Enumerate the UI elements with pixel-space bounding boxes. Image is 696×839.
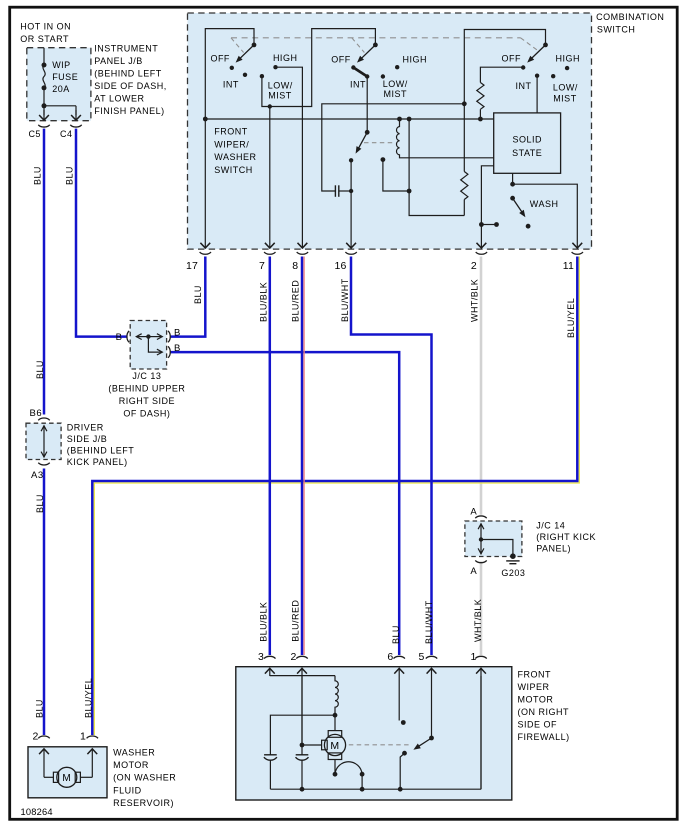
svg-text:SWITCH: SWITCH <box>214 165 253 175</box>
svg-text:AT LOWER: AT LOWER <box>94 93 144 103</box>
svg-text:BLU/YEL: BLU/YEL <box>84 678 94 718</box>
svg-text:SIDE J/B: SIDE J/B <box>67 434 108 444</box>
svg-text:RIGHT SIDE: RIGHT SIDE <box>119 396 175 406</box>
svg-text:(BEHIND LEFT: (BEHIND LEFT <box>67 445 135 455</box>
svg-text:FLUID: FLUID <box>113 785 142 795</box>
svg-text:WASHER: WASHER <box>214 152 256 162</box>
svg-text:FIREWALL): FIREWALL) <box>518 732 570 742</box>
svg-text:(BEHIND LEFT: (BEHIND LEFT <box>94 68 162 78</box>
svg-text:KICK PANEL): KICK PANEL) <box>67 457 128 467</box>
svg-text:BLU/BLK: BLU/BLK <box>259 282 269 322</box>
svg-text:HIGH: HIGH <box>556 53 581 63</box>
svg-text:SIDE OF DASH,: SIDE OF DASH, <box>94 81 167 91</box>
svg-text:WHT/BLK: WHT/BLK <box>473 599 483 642</box>
svg-text:16: 16 <box>335 260 347 272</box>
svg-text:BLU/RED: BLU/RED <box>290 280 300 322</box>
svg-text:MOTOR: MOTOR <box>113 760 149 770</box>
svg-text:B: B <box>174 343 181 354</box>
svg-text:3: 3 <box>258 651 264 663</box>
svg-text:PANEL J/B: PANEL J/B <box>94 56 143 66</box>
svg-text:COMBINATION: COMBINATION <box>596 12 664 22</box>
svg-text:108264: 108264 <box>21 807 53 817</box>
svg-text:LOW/: LOW/ <box>268 80 293 90</box>
svg-text:B: B <box>174 327 181 338</box>
svg-text:FRONT: FRONT <box>518 670 552 680</box>
svg-text:BLU: BLU <box>193 285 203 304</box>
svg-text:(RIGHT KICK: (RIGHT KICK <box>536 532 596 542</box>
svg-text:DRIVER: DRIVER <box>67 423 104 433</box>
svg-text:A3: A3 <box>31 470 44 481</box>
svg-text:J/C 13: J/C 13 <box>132 371 161 381</box>
svg-text:BLU/WHT: BLU/WHT <box>340 278 350 322</box>
svg-text:MIST: MIST <box>553 93 577 103</box>
svg-text:2: 2 <box>290 651 296 663</box>
svg-text:20A: 20A <box>52 84 70 94</box>
svg-text:(ON WASHER: (ON WASHER <box>113 773 176 783</box>
svg-text:OFF: OFF <box>502 53 522 63</box>
svg-text:OF DASH): OF DASH) <box>123 409 170 419</box>
svg-text:C4: C4 <box>60 129 73 139</box>
svg-text:INT: INT <box>516 81 532 91</box>
svg-text:OFF: OFF <box>331 54 351 64</box>
svg-text:5: 5 <box>419 651 425 663</box>
svg-text:2: 2 <box>471 260 477 272</box>
svg-text:WHT/BLK: WHT/BLK <box>469 279 479 322</box>
svg-text:MIST: MIST <box>268 91 292 101</box>
svg-text:(BEHIND UPPER: (BEHIND UPPER <box>108 384 185 394</box>
svg-text:17: 17 <box>186 260 198 272</box>
svg-text:RESERVOIR): RESERVOIR) <box>113 798 174 808</box>
svg-text:WIPER/: WIPER/ <box>214 139 249 149</box>
svg-text:SIDE OF: SIDE OF <box>518 720 558 730</box>
svg-text:BLU: BLU <box>32 166 42 185</box>
svg-text:M: M <box>330 740 339 752</box>
svg-text:BLU: BLU <box>35 699 45 718</box>
svg-text:FINISH PANEL): FINISH PANEL) <box>94 106 164 116</box>
svg-text:MIST: MIST <box>384 89 408 99</box>
svg-text:B6: B6 <box>30 408 43 419</box>
svg-text:M: M <box>62 773 71 784</box>
svg-text:2: 2 <box>32 731 38 743</box>
svg-text:B: B <box>116 332 123 343</box>
svg-text:7: 7 <box>259 260 265 272</box>
svg-text:1: 1 <box>470 651 476 663</box>
svg-text:LOW/: LOW/ <box>553 83 578 93</box>
svg-text:BLU: BLU <box>65 166 75 185</box>
svg-text:MOTOR: MOTOR <box>518 695 554 705</box>
svg-text:G203: G203 <box>501 568 525 578</box>
svg-text:BLU: BLU <box>35 494 45 513</box>
svg-text:FUSE: FUSE <box>52 72 78 82</box>
svg-text:OR START: OR START <box>20 34 69 44</box>
svg-text:SWITCH: SWITCH <box>597 25 636 35</box>
svg-text:11: 11 <box>563 260 574 272</box>
svg-text:A: A <box>470 506 477 517</box>
svg-text:OFF: OFF <box>210 53 230 63</box>
svg-text:INSTRUMENT: INSTRUMENT <box>94 43 158 53</box>
svg-text:BLU/YEL: BLU/YEL <box>566 298 576 338</box>
svg-text:J/C 14: J/C 14 <box>536 521 565 531</box>
svg-text:BLU/WHT: BLU/WHT <box>424 600 434 644</box>
svg-text:(ON RIGHT: (ON RIGHT <box>518 707 570 717</box>
svg-text:WIP: WIP <box>52 60 70 70</box>
svg-text:BLU/BLK: BLU/BLK <box>259 602 269 642</box>
svg-text:HIGH: HIGH <box>273 53 298 63</box>
svg-text:8: 8 <box>292 260 298 272</box>
svg-text:STATE: STATE <box>512 148 542 158</box>
svg-text:BLU: BLU <box>35 360 45 379</box>
svg-text:LOW/: LOW/ <box>383 79 408 89</box>
svg-text:WIPER: WIPER <box>518 682 550 692</box>
svg-text:A: A <box>470 566 477 577</box>
svg-text:INT: INT <box>223 80 239 90</box>
svg-text:WASH: WASH <box>530 199 559 209</box>
svg-text:FRONT: FRONT <box>214 127 248 137</box>
svg-text:6: 6 <box>387 651 393 663</box>
svg-text:SOLID: SOLID <box>512 135 542 145</box>
svg-text:HOT IN ON: HOT IN ON <box>20 21 71 31</box>
svg-text:BLU/RED: BLU/RED <box>290 600 300 642</box>
svg-text:PANEL): PANEL) <box>536 544 571 554</box>
svg-text:BLU: BLU <box>391 625 401 644</box>
svg-text:INT: INT <box>350 79 366 89</box>
svg-text:1: 1 <box>80 731 86 743</box>
svg-text:WASHER: WASHER <box>113 748 155 758</box>
svg-text:C5: C5 <box>28 129 41 139</box>
svg-text:HIGH: HIGH <box>403 54 428 64</box>
